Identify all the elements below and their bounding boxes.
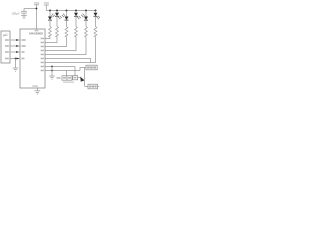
pin label V+ xyxy=(35,30,39,32)
wire output 5 xyxy=(45,37,86,55)
wire emitter to flag xyxy=(85,85,88,87)
resistor R4 xyxy=(75,27,78,37)
value label under boxes xyxy=(63,81,74,83)
svg-text:MAX6969: MAX6969 xyxy=(29,31,43,35)
svg-text:+5V: +5V xyxy=(34,1,39,5)
svg-text:100µF: 100µF xyxy=(12,12,20,16)
ground branch OE xyxy=(13,59,19,72)
resistor R6 xyxy=(94,27,97,37)
resistor R5 xyxy=(85,27,88,37)
wire L-link to flag xyxy=(80,68,86,71)
pin labels left (DIN CLK LE OE) xyxy=(22,39,26,41)
svg-text:µC: µC xyxy=(3,33,8,37)
wire output 3 xyxy=(45,37,67,47)
svg-text:+5V: +5V xyxy=(44,1,49,5)
LED D1 xyxy=(45,10,55,39)
LED D2 xyxy=(45,10,62,43)
wire ground tie xyxy=(51,67,53,77)
wire LED anode rail xyxy=(46,10,95,12)
transistor Q1 arrow xyxy=(80,77,84,82)
op IC U1 MAX6969 xyxy=(20,29,45,88)
capacitor C1 bypass xyxy=(21,9,27,16)
pin labels uC xyxy=(5,39,9,41)
resistor R2 xyxy=(56,27,59,37)
junction V+ node xyxy=(36,8,38,10)
resistor R1 xyxy=(49,27,52,37)
wire output 2 xyxy=(45,37,57,43)
ground lower xyxy=(49,76,55,79)
LED D5 xyxy=(45,10,88,55)
wire DIN xyxy=(10,39,20,41)
LED D6 xyxy=(45,10,100,63)
wire output 6 paralleled xyxy=(45,37,96,63)
resistor R3 xyxy=(65,27,68,37)
wire output 1 xyxy=(45,37,50,39)
wire OE grounded xyxy=(10,58,20,60)
node +5V supply (left, V+ feed) xyxy=(24,5,39,29)
wire output 4 xyxy=(45,37,76,51)
LED D3 xyxy=(45,10,69,47)
wire drop to option boxes xyxy=(66,71,68,76)
node flag bottom box xyxy=(88,84,98,89)
component boxes row xyxy=(62,76,67,80)
node +5V supply (LED anode rail) xyxy=(44,5,49,11)
ground under C1 xyxy=(21,15,27,18)
wire lower pin A (y=66.5) xyxy=(45,66,75,68)
op microcontroller box xyxy=(1,31,10,63)
LED D4 xyxy=(45,10,81,51)
wire transistor base lead xyxy=(78,77,81,79)
wire LE xyxy=(10,51,20,53)
svg-text:GND: GND xyxy=(32,85,38,88)
node flag top box xyxy=(86,65,97,70)
wire CLK xyxy=(10,45,20,47)
label near ground xyxy=(57,77,61,79)
ground IC GND pin xyxy=(35,88,41,94)
wire lower pin B (y=70.5) xyxy=(45,70,80,72)
wire collector bar xyxy=(84,68,86,87)
pin labels right outputs xyxy=(41,38,44,40)
